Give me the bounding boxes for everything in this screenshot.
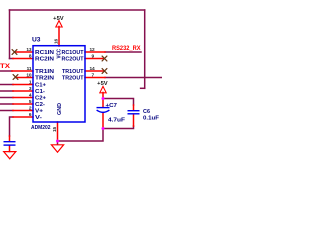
svg-text:11: 11	[27, 66, 32, 72]
junction node C7 bottom	[102, 127, 105, 130]
svg-text:C2-: C2-	[35, 102, 45, 108]
pin 13 stub	[15, 51, 34, 53]
svg-text:16: 16	[54, 39, 60, 44]
capacitor CL plates	[4, 141, 16, 143]
capacitor C7 plates	[97, 107, 110, 109]
wire C1- net	[0, 90, 13, 92]
pin 2 stub	[13, 110, 33, 112]
svg-text:U3: U3	[32, 38, 41, 44]
pin 10 stub	[16, 77, 34, 79]
pin 9 stub	[85, 58, 103, 60]
ground left	[4, 152, 16, 159]
svg-text:V+: V+	[35, 109, 44, 115]
svg-text:TR1IN: TR1IN	[35, 69, 54, 75]
svg-text:4.7uF: 4.7uF	[108, 118, 126, 124]
pin 16 stub	[58, 27, 60, 47]
no-connect X pin 10	[13, 75, 18, 80]
svg-text:13: 13	[26, 47, 31, 53]
svg-text:RC1IN: RC1IN	[35, 50, 54, 56]
wire TR2OUT net	[105, 77, 162, 79]
svg-text:TR1OUT: TR1OUT	[62, 69, 84, 75]
svg-text:12: 12	[90, 47, 95, 53]
svg-text:ADM202: ADM202	[31, 125, 51, 131]
+5V right stem	[102, 93, 104, 99]
wire V+ net	[0, 110, 13, 112]
pin 3 stub	[13, 90, 33, 92]
svg-text:10: 10	[26, 73, 31, 79]
+5V arrow left	[56, 21, 62, 27]
svg-text:TR2IN: TR2IN	[35, 76, 54, 82]
wire +5V rail	[103, 99, 134, 106]
svg-text:RS232_RX: RS232_RX	[112, 45, 141, 52]
+5V arrow right	[100, 86, 106, 92]
capacitor C6 plates	[128, 110, 140, 112]
svg-text:C6: C6	[143, 109, 150, 115]
pin 5 stub	[13, 103, 33, 105]
pin 8 stub	[13, 58, 33, 60]
junction node GND pin	[56, 140, 59, 143]
svg-text:C1+: C1+	[35, 83, 47, 89]
svg-text:RC1OUT: RC1OUT	[62, 50, 85, 56]
no-connect X pin 9	[102, 56, 107, 61]
svg-text:V-: V-	[35, 115, 42, 121]
no-connect X pin 14	[102, 69, 107, 74]
capacitor C6 bottom lead	[133, 114, 135, 126]
wire C2- net	[0, 103, 13, 105]
wire V- net	[10, 117, 14, 136]
wire pin8 net	[10, 58, 14, 60]
wire pin15 stub2	[57, 141, 59, 144]
pin 4 stub	[13, 97, 33, 99]
pin 12 stub	[85, 51, 105, 53]
wire RS232_RX net	[105, 51, 141, 53]
svg-text:GND: GND	[57, 103, 63, 115]
svg-text:RC2IN: RC2IN	[35, 57, 54, 63]
pin 14 stub	[85, 70, 103, 72]
no-connect X pin 13	[12, 50, 17, 55]
svg-text:15: 15	[52, 127, 58, 132]
capacitor CL top lead	[9, 136, 11, 141]
capacitor CL bottom lead	[9, 146, 11, 152]
svg-text:TX: TX	[0, 63, 11, 70]
svg-text:VCC: VCC	[57, 49, 63, 59]
svg-text:RC2OUT: RC2OUT	[62, 57, 85, 63]
wire C1+ net	[0, 84, 13, 86]
svg-text:0.1uF: 0.1uF	[143, 116, 160, 122]
pin 15 stub	[57, 122, 59, 141]
wire right vertical	[144, 10, 146, 88]
op-amp U3 IC box	[33, 46, 85, 122]
svg-text:+C7: +C7	[106, 103, 118, 109]
ground middle	[51, 145, 63, 152]
capacitor C7 top lead	[102, 99, 104, 108]
wire right stub	[141, 87, 145, 89]
svg-text:C2+: C2+	[35, 96, 47, 102]
svg-text:C1-: C1-	[35, 89, 45, 95]
wire net R2IN top rail	[10, 9, 145, 11]
pin 1 stub	[13, 84, 33, 86]
pin 7 stub	[85, 77, 105, 79]
svg-text:TR2OUT: TR2OUT	[62, 76, 84, 82]
capacitor C6 top lead	[133, 105, 135, 110]
pin 11 stub	[12, 70, 33, 72]
junction node C7 top	[102, 97, 105, 100]
svg-text:14: 14	[90, 66, 95, 72]
svg-text:+5V: +5V	[97, 81, 108, 87]
svg-text:+5V: +5V	[53, 16, 64, 22]
capacitor C7 bottom lead	[102, 113, 104, 128]
wire GND rail	[58, 126, 134, 141]
wire C2+ net	[0, 97, 13, 99]
wire left vertical	[9, 10, 11, 59]
pin 6 stub	[13, 116, 33, 118]
wire TX net	[0, 70, 12, 72]
